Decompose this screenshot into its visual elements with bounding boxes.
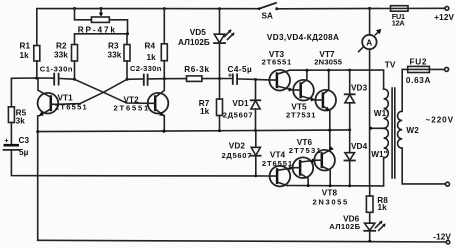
capacitor C1: [54, 74, 58, 85]
resistor R6: [187, 76, 202, 82]
transistor VT4: [270, 166, 294, 187]
wire RP left terminal to top rail: [75, 9, 92, 20]
svg-text:FU2: FU2: [410, 57, 428, 66]
node junction dots on top rail: [73, 7, 371, 10]
svg-text:W1': W1': [374, 109, 389, 118]
transistor VT6: [293, 157, 317, 185]
label VD5: [178, 28, 210, 47]
svg-text:C4-5µ: C4-5µ: [228, 65, 253, 74]
label W1: [374, 109, 389, 118]
junction dots on emitter rail: [36, 128, 351, 133]
svg-text:A: A: [366, 38, 372, 47]
svg-text:3k: 3k: [16, 117, 26, 126]
svg-text:VD1: VD1: [232, 99, 249, 108]
svg-text:VD5: VD5: [190, 28, 207, 37]
svg-text:R6-3k: R6-3k: [184, 65, 210, 74]
svg-text:W2: W2: [406, 126, 419, 135]
label 0,63A: [406, 76, 431, 85]
resistor R7: [217, 79, 223, 131]
ground/emitter rail (middle): [38, 130, 350, 132]
winding W1' lower: [384, 128, 389, 186]
label R7: [199, 99, 210, 116]
collector rail top cluster to W1: [290, 70, 384, 89]
svg-text:33k: 33k: [108, 50, 122, 59]
wire VT1 collector node row (C1 line): [11, 78, 74, 79]
label VD3: [351, 84, 368, 93]
LED VD5: [214, 9, 235, 79]
svg-text:VD3,VD4-КД208А: VD3,VD4-КД208А: [267, 33, 339, 42]
svg-text:2N3055: 2N3055: [313, 198, 349, 207]
resistor R4: [161, 9, 167, 79]
label W2: [406, 126, 419, 135]
label C4-5µ: [228, 65, 253, 74]
wiper arrow of RP: [99, 9, 103, 18]
terminal 220V bottom: [446, 182, 450, 186]
wire R6 to C4: [202, 78, 233, 80]
label VT4: [262, 151, 293, 169]
label VT6: [289, 138, 322, 155]
terminal +12V: [445, 6, 449, 10]
node dots on collector/base row: [35, 77, 257, 81]
wire R5 branch: [10, 78, 12, 107]
svg-text:2Д5607: 2Д5607: [223, 111, 254, 120]
wire RP right terminal down to R2/R3 rail: [109, 20, 127, 34]
svg-text:2Д5607: 2Д5607: [222, 151, 253, 160]
svg-text:R3: R3: [108, 42, 119, 51]
label R2: [54, 42, 68, 60]
cross-coupling wire C2node to VT1 base: [58, 79, 127, 104]
svg-text:VD3: VD3: [351, 84, 368, 93]
resistor R1: [34, 46, 40, 79]
wire ammeter line to R8 and VD6: [369, 186, 371, 196]
label VD1: [223, 99, 254, 119]
wire C4 to VT3 base: [237, 79, 269, 80]
cross-coupling wire C1node to VT2 base: [75, 79, 148, 103]
junction dots on bottom collector rail: [307, 184, 352, 187]
svg-text:RP-47k: RP-47k: [78, 26, 117, 35]
label RP-47k: [78, 26, 117, 35]
label VT7: [314, 50, 343, 67]
transistor VT1: [38, 78, 59, 240]
svg-text:АЛ102Б: АЛ102Б: [178, 38, 210, 47]
wire top +12V rail left segment: [37, 9, 259, 46]
svg-text:1k: 1k: [20, 51, 30, 60]
svg-text:1k: 1k: [378, 203, 388, 212]
bottom -12V rail: [38, 240, 446, 243]
svg-text:C1-330n: C1-330n: [40, 65, 73, 74]
svg-text:C3: C3: [19, 136, 30, 145]
capacitor C4: [228, 70, 237, 84]
transistor VT5: [293, 70, 315, 101]
label FU1: [392, 12, 406, 28]
svg-text:2T6551: 2T6551: [55, 103, 88, 112]
fuse FU1: [391, 6, 409, 12]
wire top +12V rail right segment: [277, 7, 445, 10]
svg-text:R2: R2: [56, 42, 67, 51]
svg-text:2T7531: 2T7531: [286, 110, 316, 119]
resistor R5: [8, 107, 14, 123]
label R4: [145, 42, 157, 62]
transistor VT3: [269, 70, 293, 92]
diode VD2: [251, 131, 261, 178]
svg-text:0.63A: 0.63A: [406, 76, 431, 85]
wire FU2 row: [402, 68, 444, 70]
svg-text:TV: TV: [385, 61, 396, 70]
svg-text:2T6551: 2T6551: [262, 58, 292, 67]
wire C3 down to VT4 base line: [11, 151, 269, 176]
svg-text:33k: 33k: [54, 50, 68, 59]
label VT3: [262, 50, 292, 67]
terminal 220V top: [445, 67, 449, 71]
label +12V: [434, 13, 454, 22]
label FU2: [410, 57, 428, 66]
label VT5: [286, 103, 316, 120]
diode VD4: [345, 130, 355, 186]
capacitor C2: [144, 75, 148, 85]
svg-text:VT4: VT4: [270, 151, 286, 160]
terminal -12V: [446, 240, 450, 244]
svg-text:5µ: 5µ: [19, 148, 29, 157]
label R1: [20, 42, 31, 60]
ammeter A: [359, 8, 382, 186]
svg-text:C2-330n: C2-330n: [130, 64, 162, 73]
label C2-330n: [130, 64, 162, 73]
diode VD1: [251, 80, 261, 131]
svg-text:VD2: VD2: [229, 141, 246, 150]
svg-text:1k: 1k: [147, 53, 157, 62]
label VD3,VD4 type: [267, 33, 339, 42]
svg-text:-12V: -12V: [433, 232, 451, 241]
wire R5 to C3: [10, 123, 12, 146]
svg-text:+12V: +12V: [434, 13, 454, 22]
svg-text:1k: 1k: [200, 107, 210, 116]
winding W1 upper: [384, 89, 389, 128]
fuse FU2: [408, 66, 430, 72]
svg-text:R1: R1: [20, 42, 31, 51]
svg-text:2T7531: 2T7531: [289, 146, 322, 155]
svg-text:2N3055: 2N3055: [314, 58, 343, 67]
label VD2: [222, 141, 253, 160]
transistor VT7: [315, 70, 336, 130]
switch SA: [258, 3, 278, 10]
resistor R3: [124, 45, 130, 80]
label VD4: [351, 142, 368, 151]
svg-text:VT8: VT8: [322, 189, 338, 198]
transistor VT2: [148, 79, 169, 132]
label R5: [16, 109, 27, 126]
svg-text:2T6551: 2T6551: [114, 103, 151, 112]
label R8: [377, 196, 388, 212]
svg-text:VD4: VD4: [351, 142, 368, 151]
label ~220V: [426, 115, 454, 124]
label VT1: [55, 93, 88, 111]
LED VD6: [364, 212, 386, 241]
svg-text:2T6551: 2T6551: [262, 159, 293, 168]
resistor R8: [366, 196, 373, 212]
label W1'': [371, 150, 387, 159]
center tap wire to ammeter line: [369, 127, 383, 130]
label TV: [385, 61, 396, 70]
svg-text:+: +: [4, 136, 9, 145]
svg-text:R4: R4: [145, 42, 156, 51]
label -12V: [433, 232, 451, 241]
diode VD3: [345, 70, 355, 130]
wire C2 row: [127, 78, 164, 81]
label R3: [108, 42, 122, 60]
transformer TV core: [392, 88, 395, 178]
svg-text:W1": W1": [371, 150, 387, 159]
svg-text:VT1: VT1: [58, 93, 74, 102]
collector rail bottom cluster to W1': [287, 185, 383, 187]
potentiometer RP-47k body: [91, 17, 109, 22]
svg-text:12A: 12A: [392, 18, 406, 27]
label VT2: [114, 96, 151, 113]
label C3: [19, 136, 30, 157]
label R6-3k: [184, 65, 210, 74]
junction dots on collector rail: [305, 69, 351, 72]
capacitor C3: [4, 136, 20, 150]
wire R6 row: [164, 78, 186, 80]
svg-text:~220V: ~220V: [426, 115, 454, 124]
resistor R2: [72, 45, 78, 80]
label C1-330n: [40, 65, 73, 74]
label VD6: [329, 215, 360, 231]
svg-text:SA: SA: [262, 12, 274, 21]
transistor VT8: [314, 130, 335, 186]
wire rail connecting R2 and R3 tops: [75, 32, 130, 44]
svg-text:АЛ102Б: АЛ102Б: [329, 222, 360, 231]
winding W2 secondary: [398, 69, 446, 183]
label VT8: [313, 189, 349, 207]
label SA: [262, 12, 274, 21]
